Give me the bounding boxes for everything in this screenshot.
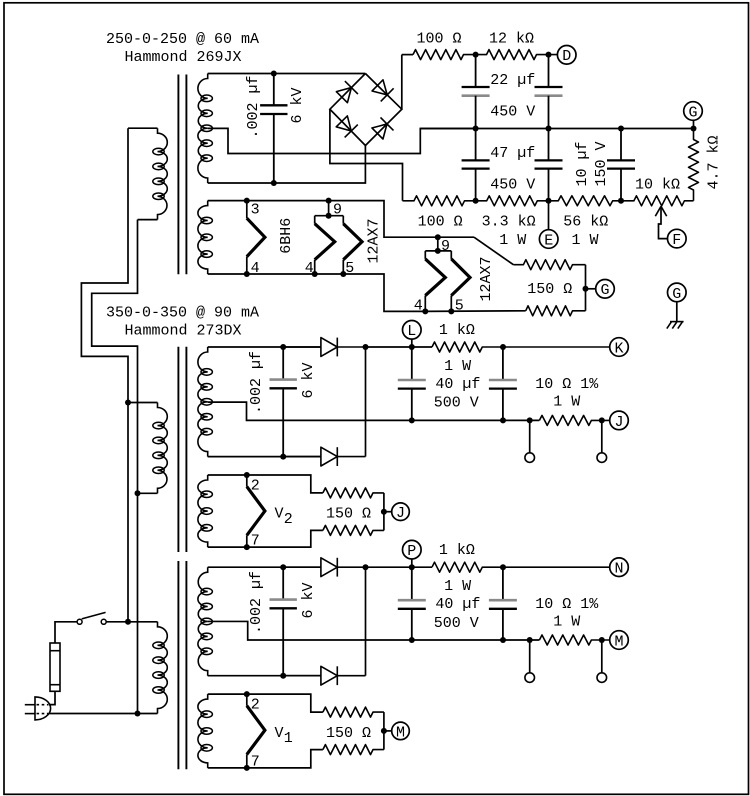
svg-text:47 µf: 47 µf [490, 145, 535, 162]
heater V1 bottom stem [246, 754, 248, 768]
junction dot 12AX7-1 bar [326, 213, 332, 219]
resistor 12 kΩ [476, 50, 558, 60]
inductor T1 primary winding [153, 128, 168, 219]
wire terminal E stub [548, 201, 550, 230]
junction dots T2 primary on rails [125, 400, 141, 497]
wire B+ row to K [366, 346, 433, 348]
heater element 12AX7-1 left [315, 224, 335, 260]
wire AC rail B [92, 220, 138, 714]
diode bridge upper-left [336, 81, 358, 103]
wire pot wiper to terminal F [659, 207, 668, 239]
heater 12AX7-2 left leg bottom [424, 296, 426, 312]
resistor 150 Ω (lower, heater) [526, 306, 586, 316]
wire V2 bottom rail [208, 530, 323, 547]
resistor 10 Ω 1% 1 W (upper) [539, 415, 609, 425]
terminal G (top right) [684, 102, 703, 122]
svg-text:V: V [275, 725, 284, 742]
resistor 150 Ω (V1 upper) [323, 707, 384, 717]
resistor 100 Ω (bottom) [403, 196, 476, 206]
wire switch left lead [55, 622, 77, 643]
svg-text:150 V: 150 V [593, 141, 610, 186]
capacitor .002 uF 6 kV (T3) [270, 567, 297, 676]
svg-text:56 kΩ: 56 kΩ [563, 214, 608, 231]
junction dots P bottom rail [409, 637, 605, 643]
capacitor 40 µf 500 V (L right) [489, 347, 517, 420]
heater element 12AX7-2 left [425, 259, 445, 296]
svg-text:.002 µf: .002 µf [245, 75, 262, 138]
terminal E [539, 230, 558, 250]
terminal L [403, 321, 422, 341]
junction dots .002 cap T1 [271, 71, 277, 187]
terminal G (ground) [668, 283, 687, 303]
transformer T2 core laminations [178, 347, 186, 552]
svg-text:9: 9 [333, 202, 342, 219]
svg-text:Hammond 269JX: Hammond 269JX [125, 49, 242, 66]
wire plug neutral to rail B [50, 713, 158, 715]
junction dots V2 [244, 472, 250, 550]
wire T2 diode join riser [365, 347, 367, 457]
wire T3 diode join riser [365, 567, 367, 676]
heater 6BH6 top stem [246, 201, 248, 219]
AC plug body [35, 697, 51, 720]
wire bridge rectifier diamond [330, 74, 402, 146]
wire terminal L stub [411, 339, 413, 347]
resistor 1 kΩ 1 W (upper) [432, 342, 610, 352]
svg-text:7: 7 [251, 753, 260, 770]
heater 12AX7-1 pin9 stem [328, 201, 330, 216]
junction dot G2 node [583, 286, 589, 292]
terminal K [610, 338, 629, 358]
resistor 150 Ω (V2 lower) [323, 525, 384, 535]
switch S1 contacts [77, 619, 106, 624]
svg-text:150 Ω: 150 Ω [527, 281, 572, 298]
resistor 1 kΩ 1 W (lower) [432, 562, 610, 572]
terminal J [610, 411, 629, 431]
transformer T3 core laminations [178, 561, 186, 769]
svg-text:3.3 kΩ: 3.3 kΩ [482, 214, 536, 231]
wire node row1 left lead [402, 54, 413, 56]
svg-text:4: 4 [414, 298, 423, 315]
wire T2 primary bottom lead [138, 492, 158, 494]
inductor T1 HV secondary winding [198, 74, 213, 184]
test jack stub left (P) [529, 640, 531, 672]
resistor 150 Ω (V1 lower) [323, 745, 384, 755]
svg-text:7: 7 [251, 533, 260, 550]
heater V1 top stem [246, 694, 248, 706]
test jack stub right (L) [601, 420, 603, 452]
svg-text:10 Ω 1%: 10 Ω 1% [535, 596, 599, 613]
heater 12AX7-1 left leg bottom [314, 260, 316, 274]
svg-text:6 kV: 6 kV [300, 362, 317, 398]
junction dots V1 [244, 691, 250, 771]
svg-text:E: E [544, 232, 553, 249]
inductor T2 heater winding V2 [198, 475, 213, 547]
terminal F [668, 229, 687, 249]
svg-text:D: D [562, 48, 571, 65]
svg-text:22 µf: 22 µf [490, 72, 535, 89]
svg-text:K: K [614, 340, 623, 357]
junction dot V2 J node [381, 509, 387, 515]
heater element 12AX7-1 right [343, 224, 362, 260]
wire V1 top rail [208, 694, 323, 712]
wire T3 secondary top [208, 566, 321, 568]
capacitor 47 µf 450 V (right) [535, 129, 563, 201]
transformer T1 core laminations [178, 75, 186, 275]
wire V2 resistors join [383, 493, 385, 531]
svg-text:J: J [614, 414, 623, 431]
svg-text:F: F [672, 232, 681, 249]
ground stem [676, 302, 678, 322]
svg-text:J: J [396, 505, 405, 522]
heater 12AX7-1 right leg bottom [342, 260, 344, 274]
svg-text:6 kV: 6 kV [289, 87, 306, 123]
heater 12AX7-2 top bar [425, 250, 451, 252]
diode bridge lower-left [336, 116, 358, 138]
junction dots row 128 [473, 126, 697, 132]
wire T1 center tap to node row [208, 128, 476, 153]
svg-text:4: 4 [305, 260, 314, 277]
inductor T2 HV secondary winding [198, 347, 213, 457]
junction dots L bottom rail [409, 417, 605, 423]
svg-text:12AX7: 12AX7 [366, 218, 383, 263]
svg-text:M: M [396, 724, 405, 741]
heater element V2 [247, 487, 265, 536]
heater element 12AX7-2 right [451, 259, 470, 296]
capacitor 40 µf 500 V (P right) [489, 567, 517, 640]
diode rectifier T3 upper [283, 558, 365, 577]
wire T1 secondary bottom to bridge [208, 146, 366, 184]
wire bridge - output to lower row [330, 109, 403, 201]
junction dots row 200 [473, 198, 624, 204]
svg-text:M: M [614, 633, 623, 650]
capacitor 22 µf 450 V (left) [462, 55, 490, 129]
svg-text:1 kΩ: 1 kΩ [439, 542, 475, 559]
ground symbol [667, 322, 684, 329]
wire V1 resistors join [383, 712, 385, 750]
wire node row 128 to terminal G [420, 120, 693, 128]
svg-text:1: 1 [284, 730, 293, 747]
svg-text:12AX7: 12AX7 [478, 256, 495, 301]
svg-text:1 W: 1 W [553, 614, 580, 631]
inductor T1 heater winding [198, 201, 213, 274]
resistor 150 Ω (V2 upper) [323, 488, 384, 498]
svg-text:V: V [275, 506, 284, 523]
svg-text:2: 2 [251, 697, 260, 714]
svg-text:1 W: 1 W [444, 358, 471, 375]
svg-text:100 Ω: 100 Ω [418, 214, 463, 231]
junction dot switch/rail A [125, 619, 131, 625]
heater 12AX7-2 right leg bottom [450, 296, 452, 312]
heater 12AX7-1 right leg top [342, 216, 344, 224]
heater 12AX7-2 pin9 stem [437, 237, 439, 251]
capacitor 47 µf 450 V (left) [462, 129, 490, 201]
heater 6BH6 bottom stem [246, 257, 248, 274]
wire diagonal to 150 Ω top [474, 237, 513, 265]
terminal M [610, 631, 629, 651]
wire switch to rail A [106, 621, 158, 623]
svg-text:450 V: 450 V [490, 103, 535, 120]
svg-text:2: 2 [284, 511, 293, 528]
junction dots row1 [473, 52, 552, 58]
heater V2 top stem [246, 475, 248, 487]
wire T2 center tap to common rail [208, 402, 540, 420]
terminal P [403, 540, 422, 560]
resistor 150 Ω (upper, heater) [513, 260, 585, 270]
svg-text:4: 4 [251, 260, 260, 277]
capacitor 10 µf 150 V [607, 129, 635, 201]
wire T3 secondary bottom [208, 675, 321, 677]
test jack stub left (L) [529, 420, 531, 452]
junction dots .002 cap T3 [280, 564, 286, 679]
capacitor 40 µf 500 V (P left) [398, 567, 426, 640]
resistor 10 Ω 1% 1 W (lower) [539, 635, 609, 645]
wire T1 primary top lead [128, 127, 158, 129]
svg-text:6BH6: 6BH6 [278, 218, 295, 254]
svg-text:Hammond 273DX: Hammond 273DX [125, 323, 242, 340]
junction dots 12AX7-2 [422, 234, 454, 314]
junction dot plug/rail B [135, 711, 141, 717]
diode rectifier T2 lower [283, 447, 365, 466]
svg-text:450 V: 450 V [490, 176, 535, 193]
svg-text:350-0-350 @ 90 mA: 350-0-350 @ 90 mA [106, 305, 259, 322]
svg-text:9: 9 [441, 238, 450, 255]
heater 12AX7-1 top bar [315, 215, 344, 217]
inductor T3 primary winding [153, 622, 168, 714]
junction dot V1 M node [381, 728, 387, 734]
svg-text:10 µf: 10 µf [574, 141, 591, 186]
AC plug prongs [25, 705, 49, 714]
wire stub to terminal J (heater) [384, 511, 392, 513]
terminal N [610, 558, 629, 578]
potentiometer 10 kΩ [621, 196, 694, 206]
test jacks (L section) [525, 453, 607, 463]
heater element 6BH6 [247, 218, 265, 256]
wire T2 secondary top [208, 346, 321, 348]
junction dots .002 cap T2 [280, 344, 286, 460]
switch S1 lever [82, 612, 106, 619]
heater V2 bottom stem [246, 535, 248, 547]
svg-text:1 W: 1 W [499, 232, 526, 249]
potentiometer wiper arrow [655, 206, 666, 216]
svg-text:L: L [407, 323, 416, 340]
svg-text:10 kΩ: 10 kΩ [635, 177, 680, 194]
diode rectifier T2 upper [283, 338, 365, 357]
terminal G (heater center) [596, 280, 615, 300]
wire terminal P stub [411, 559, 413, 567]
svg-text:G: G [600, 282, 609, 299]
wire heater bottom rail T1 [208, 274, 426, 311]
svg-text:100 Ω: 100 Ω [417, 31, 462, 48]
heater 12AX7-2 left leg top [424, 251, 426, 259]
junction dots L node [363, 344, 507, 350]
wire T3 center tap to common rail [208, 621, 540, 640]
capacitor 40 µf 500 V (L left) [398, 347, 426, 420]
svg-text:1 kΩ: 1 kΩ [439, 322, 475, 339]
svg-text:40 µf: 40 µf [435, 376, 480, 393]
wire fuse to plug [49, 691, 55, 704]
wire B+ row to N [366, 566, 433, 568]
terminal M (heater) [392, 722, 410, 741]
resistor 3.3 kΩ 1 W [476, 196, 549, 206]
svg-text:150 Ω: 150 Ω [326, 505, 371, 522]
capacitor 22 µf 450 V (right) [535, 55, 563, 129]
wire AC rail A [81, 128, 128, 622]
svg-text:150 Ω: 150 Ω [326, 725, 371, 742]
inductor T3 HV secondary winding [198, 567, 213, 676]
svg-text:P: P [407, 543, 416, 560]
test jack stub right (P) [601, 640, 603, 672]
wire bridge + output riser [401, 55, 403, 110]
svg-text:5: 5 [345, 260, 354, 277]
svg-text:2: 2 [251, 478, 260, 495]
svg-text:6 kV: 6 kV [300, 582, 317, 618]
heater 12AX7-2 right leg top [450, 251, 452, 259]
svg-text:10 Ω 1%: 10 Ω 1% [535, 376, 599, 393]
svg-text:1 W: 1 W [553, 394, 580, 411]
diode bridge upper-right [372, 80, 394, 102]
test jacks (P section) [525, 673, 607, 683]
junction dots P node [363, 564, 507, 570]
wire 150 Ω pair right side [585, 265, 587, 311]
wire V2 top rail [208, 475, 323, 493]
resistor 56 kΩ 1 W [549, 196, 622, 206]
heater 12AX7-1 left leg top [314, 216, 316, 224]
svg-text:1 W: 1 W [444, 578, 471, 595]
diode bridge lower-right [372, 117, 394, 139]
svg-text:N: N [614, 561, 623, 578]
capacitor .002 uF 6 kV (T1) [260, 74, 287, 184]
fuse F1 [50, 643, 60, 691]
wire stub to terminal M (heater) [384, 730, 392, 732]
diode rectifier T3 lower [283, 666, 365, 685]
wire heater bottom to 150 Ω lower [425, 310, 525, 313]
inductor T2 primary winding [153, 403, 168, 494]
terminal J (heater) [392, 503, 410, 522]
svg-text:3: 3 [251, 202, 260, 219]
svg-text:4.7 kΩ: 4.7 kΩ [706, 135, 723, 189]
svg-text:500 V: 500 V [434, 395, 479, 412]
svg-text:1 W: 1 W [572, 232, 599, 249]
svg-text:G: G [672, 286, 681, 303]
junction dots heater rails T1 [244, 198, 346, 277]
wire T1 primary bottom lead [138, 219, 158, 221]
resistor 100 Ω (top) [413, 50, 476, 60]
svg-text:250-0-250 @ 60 mA: 250-0-250 @ 60 mA [106, 31, 259, 48]
inductor T3 heater winding V1 [198, 694, 213, 768]
heater element V1 [247, 706, 265, 755]
resistor 4.7 kΩ [689, 129, 699, 201]
svg-text:.002 µf: .002 µf [248, 571, 265, 634]
capacitor .002 uF 6 kV (T2) [270, 347, 297, 457]
svg-text:40 µf: 40 µf [435, 596, 480, 613]
svg-text:500 V: 500 V [434, 615, 479, 632]
wire T2 primary top lead [128, 402, 158, 404]
wire T2 secondary bottom [208, 456, 321, 458]
svg-text:12 kΩ: 12 kΩ [489, 31, 534, 48]
wire T1 secondary top to bridge [208, 73, 366, 75]
wire stub to terminal G2 [586, 288, 596, 290]
terminal D [557, 46, 576, 66]
svg-text:G: G [688, 104, 697, 121]
wire V1 bottom rail [208, 750, 323, 768]
wire heater top rail T1 [208, 201, 474, 238]
svg-text:.002 µf: .002 µf [248, 351, 265, 414]
